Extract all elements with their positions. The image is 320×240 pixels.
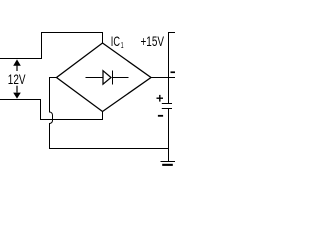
svg-text:IC: IC bbox=[111, 33, 120, 49]
svg-text:1: 1 bbox=[121, 40, 124, 50]
svg-text:12V: 12V bbox=[8, 71, 26, 87]
svg-text:+15V: +15V bbox=[141, 33, 165, 49]
